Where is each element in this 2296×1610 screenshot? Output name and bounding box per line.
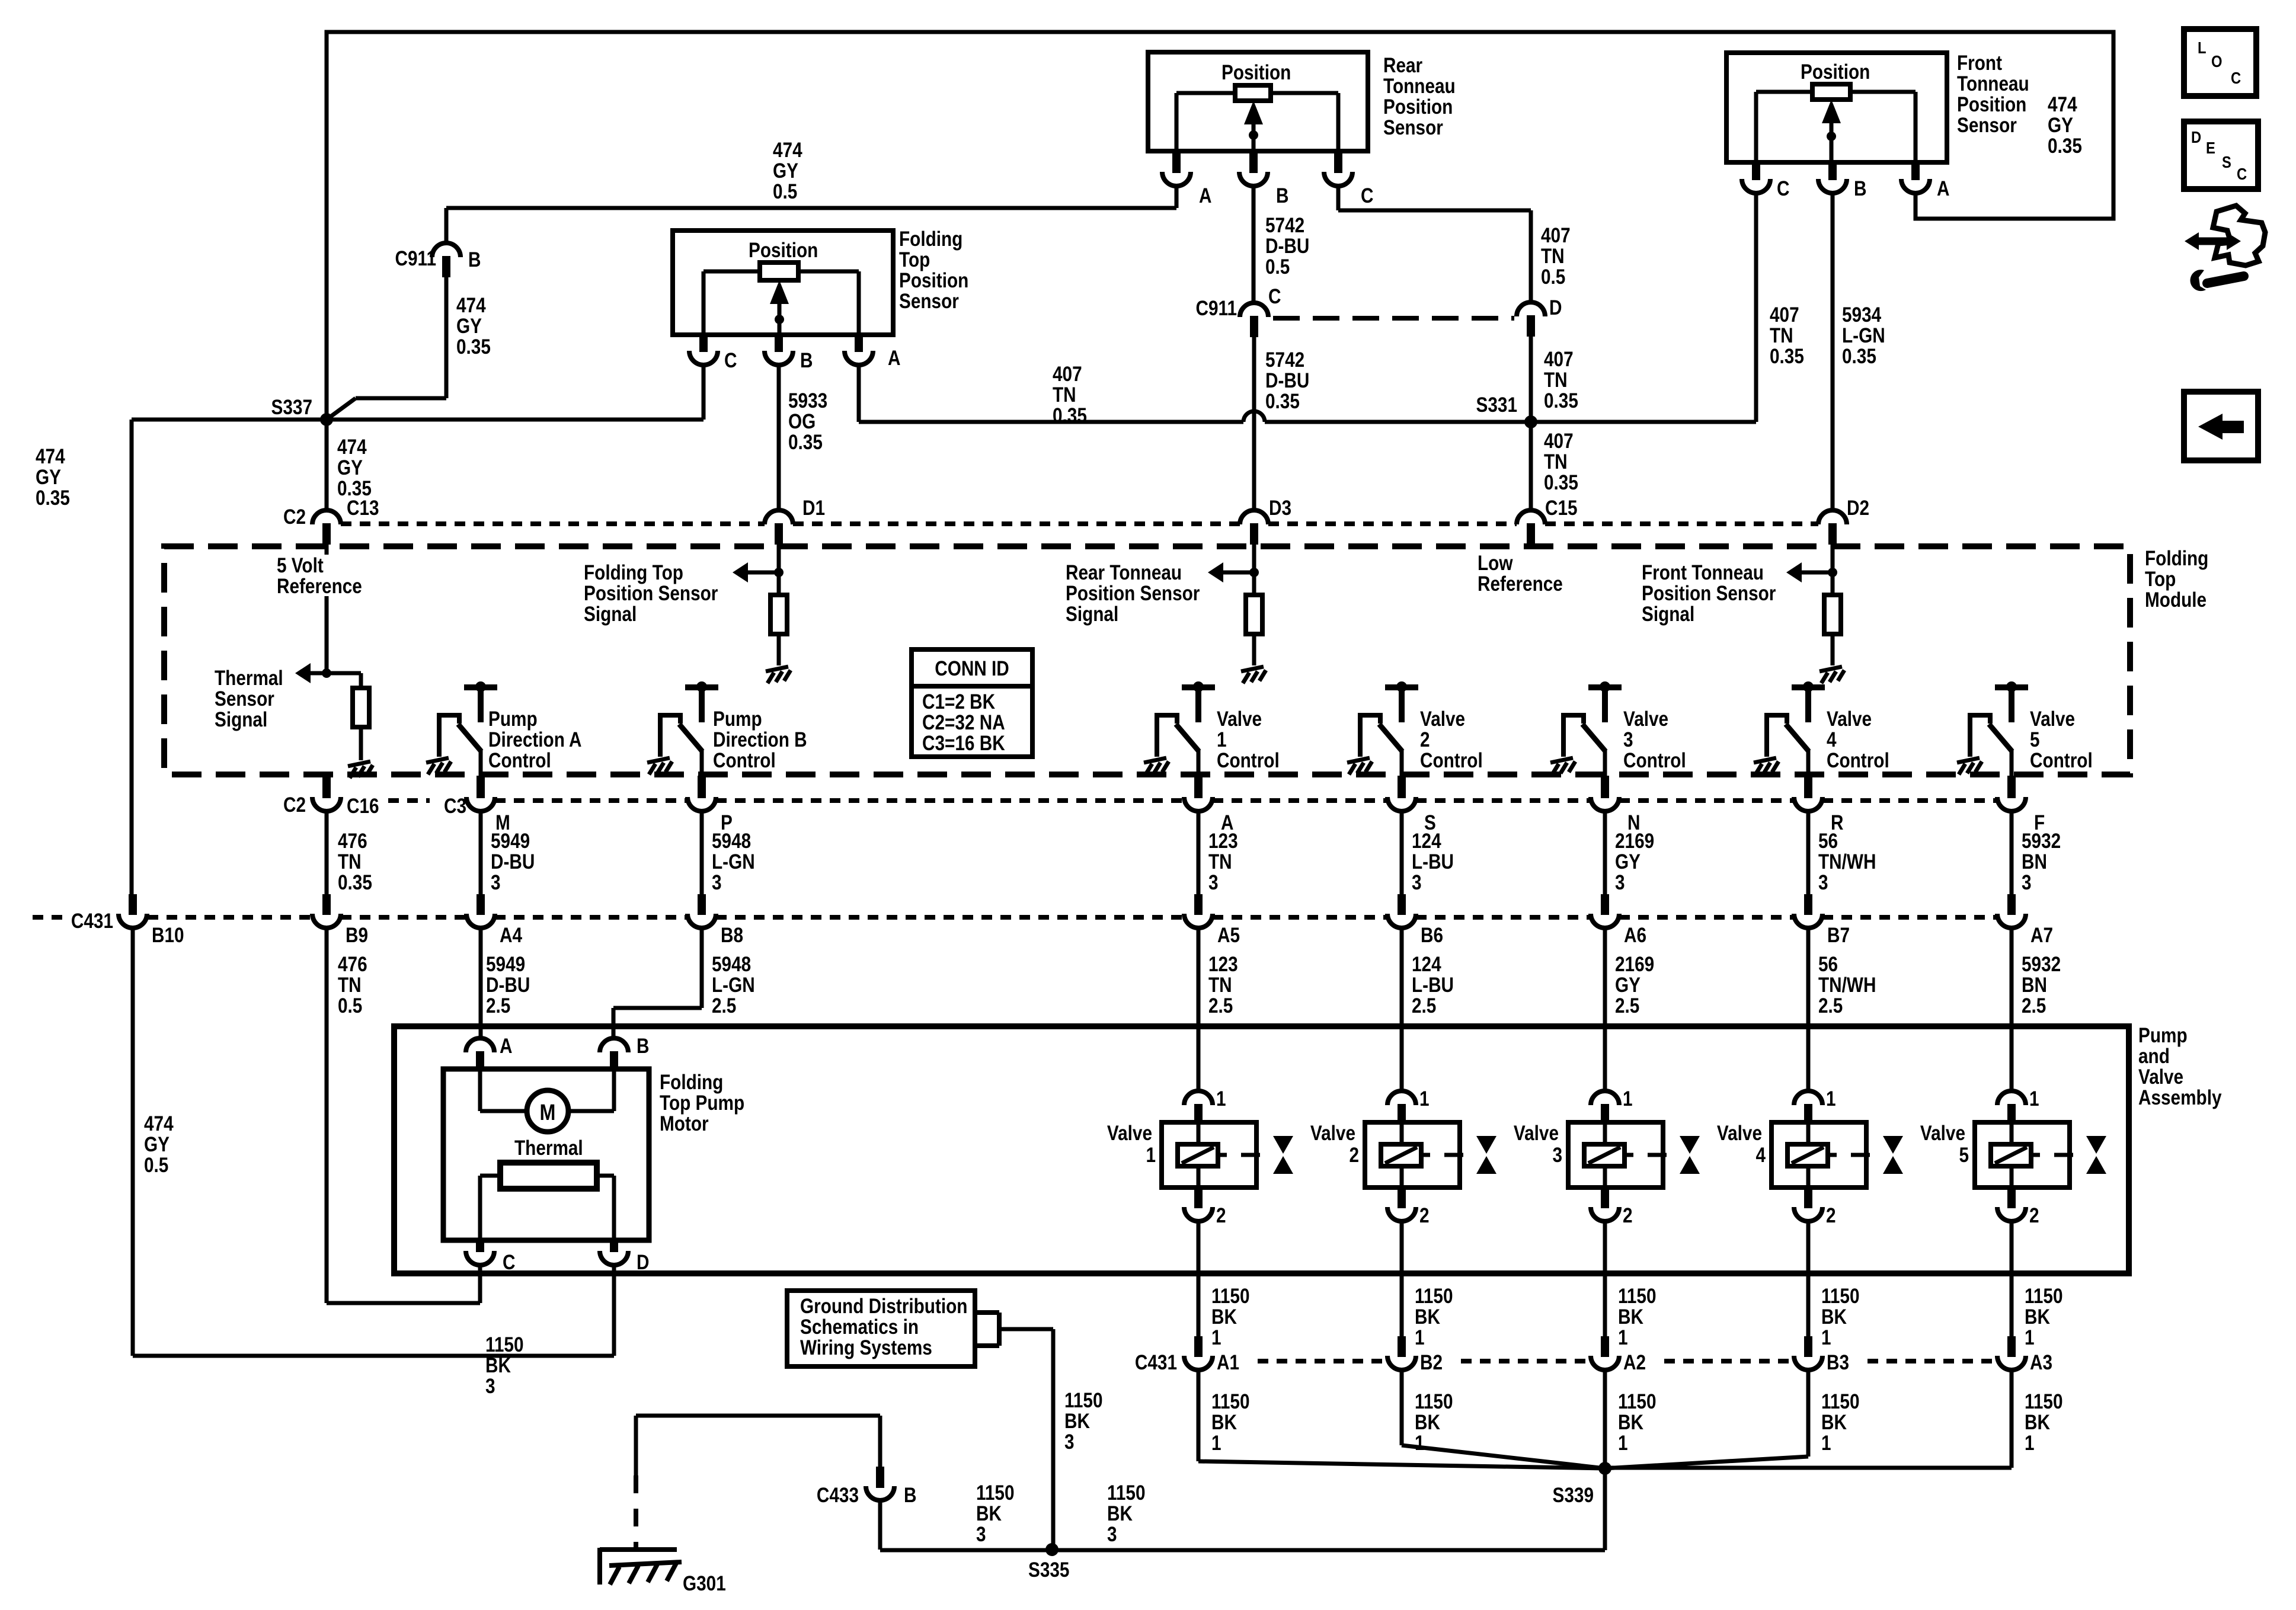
- svg-text:1: 1: [1419, 1087, 1430, 1110]
- svg-text:5948: 5948: [712, 830, 751, 853]
- svg-text:0.5: 0.5: [773, 180, 797, 203]
- wire 1150 BK 1 valve 1 to C431: [1197, 1221, 1201, 1336]
- junction S337: [320, 413, 333, 426]
- connector C431 A1: [1184, 1356, 1213, 1370]
- svg-text:D-BU: D-BU: [1265, 235, 1309, 258]
- DESC box icon: [2184, 121, 2258, 189]
- svg-text:1: 1: [1216, 1087, 1226, 1110]
- pin B rear sensor: [1249, 151, 1258, 172]
- svg-text:0.35: 0.35: [2048, 135, 2082, 158]
- svg-text:B7: B7: [1827, 924, 1850, 947]
- svg-text:Control: Control: [488, 749, 551, 772]
- potentiometer in front sensor: [1812, 84, 1850, 100]
- svg-text:407: 407: [1541, 224, 1571, 247]
- folding top module dashed box: [164, 546, 2130, 774]
- svg-text:2.5: 2.5: [1208, 994, 1233, 1017]
- pin C rear sensor: [1334, 151, 1342, 172]
- dashed connector line C911 C to D: [1273, 316, 1514, 321]
- svg-text:Top: Top: [899, 248, 930, 271]
- wire valve 5 feed 3.0: [2010, 811, 2014, 896]
- svg-text:Position Sensor: Position Sensor: [584, 582, 718, 605]
- svg-text:2: 2: [1216, 1204, 1226, 1227]
- svg-text:1150: 1150: [1415, 1390, 1453, 1413]
- connector C431 B9: [312, 914, 341, 928]
- dashed wire to G301: [634, 1475, 638, 1548]
- svg-text:S: S: [2222, 152, 2231, 171]
- wire 407 TN 0.5 rear pin C to connector D: [1336, 186, 1341, 210]
- wire valve 3 feed 3.0: [1603, 811, 1607, 896]
- ground distribution schematics box: [787, 1291, 975, 1366]
- svg-text:M: M: [540, 1100, 556, 1125]
- svg-text:1150: 1150: [1821, 1285, 1860, 1308]
- switch valve 5 control: [1970, 687, 2028, 776]
- connector R: [1794, 797, 1822, 811]
- svg-text:5933: 5933: [788, 389, 827, 412]
- ground for pump direction A control: [426, 758, 451, 774]
- wrench icon: [2207, 276, 2244, 283]
- connector C431 B6: [1387, 914, 1416, 928]
- rear tonneau position sensor box: [1148, 52, 1368, 151]
- thermal sensor resistor: [359, 673, 363, 688]
- svg-text:0.35: 0.35: [1544, 389, 1578, 412]
- 5 volt reference wire: [325, 524, 329, 673]
- motor M circle: [478, 1069, 482, 1111]
- svg-text:1150: 1150: [1415, 1285, 1453, 1308]
- ground for pump direction B control: [647, 758, 672, 774]
- junction S331: [1524, 415, 1537, 428]
- dashed connector row C16-F: [388, 798, 430, 803]
- valve 5 solenoid box: [1975, 1122, 2070, 1188]
- svg-text:D: D: [637, 1251, 649, 1274]
- svg-text:A: A: [888, 347, 900, 370]
- svg-text:5949: 5949: [491, 830, 530, 853]
- valve 3 pin 2: [1601, 1188, 1609, 1208]
- svg-text:L-BU: L-BU: [1412, 974, 1454, 997]
- svg-text:Valve: Valve: [1310, 1122, 1355, 1145]
- svg-text:0.35: 0.35: [788, 431, 823, 454]
- svg-text:1: 1: [1821, 1432, 1831, 1455]
- svg-text:0.5: 0.5: [144, 1154, 168, 1177]
- svg-text:5: 5: [1959, 1144, 1969, 1167]
- svg-text:S331: S331: [1476, 393, 1517, 417]
- svg-text:5932: 5932: [2022, 830, 2061, 853]
- svg-text:B: B: [904, 1484, 916, 1507]
- motor pin D: [610, 1240, 618, 1252]
- svg-text:5948: 5948: [712, 953, 751, 976]
- svg-text:3: 3: [1208, 871, 1219, 894]
- wire B2 to S339: [1400, 1370, 1404, 1445]
- svg-text:C: C: [503, 1251, 515, 1274]
- folding top pump motor box: [443, 1069, 649, 1240]
- svg-text:2169: 2169: [1615, 953, 1654, 976]
- wiper arrow rear sensor: [1244, 101, 1263, 124]
- switch pump direction B control: [660, 687, 718, 776]
- svg-text:Valve: Valve: [1514, 1122, 1559, 1145]
- connector C433 pin B: [878, 1416, 882, 1467]
- svg-text:Control: Control: [713, 749, 776, 772]
- svg-text:Valve: Valve: [1717, 1122, 1762, 1145]
- valve 1 coil: [1178, 1144, 1218, 1166]
- svg-text:GY: GY: [1615, 850, 1641, 873]
- svg-text:Wiring Systems: Wiring Systems: [800, 1336, 932, 1359]
- svg-text:Control: Control: [1623, 749, 1686, 772]
- svg-text:Thermal: Thermal: [215, 667, 283, 690]
- svg-text:1150: 1150: [1064, 1389, 1103, 1412]
- svg-text:BK: BK: [1211, 1411, 1237, 1434]
- svg-text:Direction B: Direction B: [713, 728, 807, 751]
- svg-text:1: 1: [1826, 1087, 1836, 1110]
- connector C431 A7: [1997, 914, 2026, 928]
- svg-text:0.35: 0.35: [36, 486, 70, 510]
- wire 474 GY 0.5 B10 to motor pin D: [131, 928, 135, 1356]
- switch valve 1 control: [1157, 687, 1215, 776]
- potentiometer in folding top sensor: [760, 263, 798, 280]
- svg-text:1: 1: [1217, 728, 1227, 751]
- svg-text:Valve: Valve: [1623, 708, 1668, 731]
- svg-text:A6: A6: [1624, 924, 1646, 947]
- svg-text:and: and: [2138, 1045, 2170, 1068]
- svg-text:B9: B9: [346, 924, 368, 947]
- svg-text:1150: 1150: [1618, 1285, 1657, 1308]
- motor pin C: [476, 1240, 484, 1252]
- svg-text:Valve: Valve: [1217, 708, 1262, 731]
- valve 2 solenoid box: [1365, 1122, 1460, 1188]
- svg-text:BK: BK: [1821, 1305, 1847, 1329]
- svg-text:Control: Control: [1420, 749, 1483, 772]
- connector C431 B10: [119, 914, 147, 928]
- connector C431 B7: [1794, 914, 1822, 928]
- svg-text:5: 5: [2030, 728, 2040, 751]
- valve 3 solenoid box: [1568, 1122, 1663, 1188]
- svg-text:0.35: 0.35: [456, 335, 491, 359]
- valve 2 coil: [1381, 1144, 1421, 1166]
- pin C front sensor: [1752, 162, 1760, 180]
- svg-text:C15: C15: [1545, 497, 1578, 520]
- svg-text:Valve: Valve: [1107, 1122, 1152, 1145]
- wire to valve 4 pin 1: [1806, 928, 1811, 1091]
- valve 4 pin 1: [1794, 1091, 1822, 1105]
- connector C431 A3: [1997, 1356, 2026, 1370]
- svg-text:1: 1: [1821, 1326, 1831, 1349]
- svg-text:D: D: [1549, 296, 1562, 319]
- wire 1150 BK 1 valve 5 to C431: [2010, 1221, 2014, 1336]
- svg-text:Position: Position: [1957, 93, 2026, 116]
- svg-text:S335: S335: [1028, 1558, 1069, 1582]
- svg-text:TN: TN: [1208, 850, 1232, 873]
- svg-text:Reference: Reference: [277, 575, 362, 598]
- wire 5948 L-GN 2.5 B8 to motor pin B: [700, 928, 704, 1008]
- svg-text:B3: B3: [1827, 1351, 1849, 1374]
- connector A: [1184, 797, 1213, 811]
- wire 1150 BK 1 valve 4 to C431: [1806, 1221, 1811, 1336]
- motor pin B: [600, 1038, 628, 1052]
- svg-text:1150: 1150: [1618, 1390, 1657, 1413]
- svg-text:D2: D2: [1847, 497, 1869, 520]
- svg-text:L-BU: L-BU: [1412, 850, 1454, 873]
- connector C431 A2: [1591, 1356, 1619, 1370]
- valve 2 hydraulic symbol: [1476, 1136, 1496, 1154]
- wire 5949 D-BU 2.5 A4 to motor pin A: [479, 928, 483, 1038]
- wire 407 TN 0.35 S331 down to C15: [1529, 422, 1533, 510]
- svg-text:1150: 1150: [1107, 1481, 1146, 1505]
- valve 1 pin 2: [1194, 1188, 1203, 1208]
- svg-text:D-BU: D-BU: [491, 850, 535, 873]
- connector C15: [1517, 510, 1545, 524]
- svg-text:A7: A7: [2030, 924, 2053, 947]
- svg-text:BK: BK: [1618, 1411, 1643, 1434]
- svg-text:1: 1: [1623, 1087, 1633, 1110]
- svg-text:GY: GY: [1615, 974, 1641, 997]
- svg-text:B6: B6: [1421, 924, 1443, 947]
- svg-text:TN/WH: TN/WH: [1818, 850, 1876, 873]
- svg-text:2169: 2169: [1615, 830, 1654, 853]
- svg-text:L-GN: L-GN: [1842, 324, 1885, 347]
- wire to valve 1 pin 1: [1197, 928, 1201, 1091]
- pin A front sensor: [1911, 162, 1920, 180]
- wire to valve 5 pin 1: [2010, 928, 2014, 1091]
- wire 476 TN 0.35: [325, 811, 329, 896]
- svg-text:BN: BN: [2022, 850, 2047, 873]
- wire B3 to S339: [1806, 1370, 1811, 1457]
- svg-text:1: 1: [2029, 1087, 2039, 1110]
- valve 4 hydraulic symbol: [1883, 1136, 1903, 1154]
- ground Folding Top: [766, 667, 791, 683]
- svg-text:1150: 1150: [1821, 1390, 1860, 1413]
- svg-text:2: 2: [1826, 1204, 1836, 1227]
- svg-text:GY: GY: [144, 1133, 170, 1156]
- svg-text:3: 3: [976, 1523, 986, 1546]
- svg-text:BK: BK: [1415, 1411, 1440, 1434]
- svg-text:A: A: [1199, 184, 1211, 207]
- svg-text:TN: TN: [1208, 974, 1232, 997]
- schematic navigation icon with wrench: [2213, 206, 2265, 265]
- svg-text:C3: C3: [444, 795, 466, 818]
- svg-text:B2: B2: [1420, 1351, 1443, 1374]
- connector S: [1387, 797, 1416, 811]
- valve 4 pin 2: [1804, 1188, 1812, 1208]
- switch valve 3 control: [1563, 687, 1622, 776]
- potentiometer in rear sensor: [1235, 85, 1271, 101]
- svg-text:Tonneau: Tonneau: [1957, 72, 2029, 95]
- wire 5934 L-GN 0.35 front pin B down to D2: [1831, 193, 1835, 510]
- svg-text:407: 407: [1544, 430, 1574, 453]
- svg-text:3: 3: [485, 1375, 495, 1398]
- svg-text:GY: GY: [456, 315, 482, 338]
- dashed connector row C431 B10-A7: [33, 915, 62, 920]
- svg-text:B: B: [637, 1035, 649, 1058]
- svg-text:Top: Top: [2145, 568, 2176, 591]
- svg-text:Schematics in: Schematics in: [800, 1315, 919, 1339]
- svg-text:Folding Top: Folding Top: [584, 561, 683, 584]
- svg-text:TN: TN: [1544, 450, 1568, 473]
- wire ground distribution to S335: [999, 1327, 1053, 1331]
- svg-text:Position: Position: [1801, 60, 1870, 84]
- svg-text:B: B: [1276, 184, 1288, 207]
- valve 5 pin 1: [1997, 1091, 2026, 1105]
- wire to valve 3 pin 1: [1603, 928, 1607, 1091]
- pin B front sensor: [1828, 162, 1837, 180]
- wire 5933 OG 0.35 folding pin B down to D1: [777, 365, 781, 510]
- svg-text:5742: 5742: [1265, 348, 1304, 372]
- svg-text:5742: 5742: [1265, 214, 1304, 237]
- svg-text:124: 124: [1412, 830, 1441, 853]
- svg-text:2.5: 2.5: [712, 994, 736, 1017]
- svg-text:C: C: [724, 349, 737, 372]
- svg-text:3: 3: [1412, 871, 1422, 894]
- valve 2 pin 1: [1387, 1091, 1416, 1105]
- connector F: [1997, 797, 2026, 811]
- svg-text:C: C: [2231, 68, 2241, 87]
- svg-text:Sensor: Sensor: [1957, 114, 2017, 137]
- valve 3 coil: [1584, 1144, 1625, 1166]
- svg-text:2.5: 2.5: [2022, 994, 2046, 1017]
- svg-text:B: B: [800, 349, 813, 372]
- connector D3: [1240, 510, 1268, 524]
- svg-text:1150: 1150: [485, 1333, 524, 1356]
- ground G301: [600, 1548, 682, 1585]
- svg-text:474: 474: [2048, 93, 2077, 116]
- svg-text:474: 474: [456, 294, 486, 317]
- svg-text:0.35: 0.35: [338, 871, 372, 894]
- svg-text:2.5: 2.5: [1412, 994, 1436, 1017]
- wire 407 TN 0.35 folding pin A to S331: [857, 365, 861, 422]
- svg-text:Valve: Valve: [2138, 1065, 2183, 1089]
- wire 474 GY 0.35 below C911 B: [445, 277, 449, 398]
- svg-text:Signal: Signal: [584, 603, 637, 626]
- wire 407 TN 0.35 S331 right to front pin C: [1531, 420, 1756, 424]
- svg-text:3: 3: [1064, 1430, 1075, 1454]
- svg-text:L-GN: L-GN: [712, 850, 755, 873]
- svg-text:0.5: 0.5: [338, 994, 362, 1017]
- svg-text:1: 1: [1415, 1326, 1425, 1349]
- svg-text:2.5: 2.5: [1818, 994, 1843, 1017]
- svg-text:Control: Control: [2030, 749, 2093, 772]
- svg-text:Module: Module: [2145, 588, 2207, 612]
- ground Front Tonneau: [1819, 667, 1844, 683]
- svg-text:C: C: [1268, 285, 1281, 308]
- wire valve 2 feed 3.0: [1400, 811, 1404, 896]
- valve 1 pin 1: [1184, 1091, 1213, 1105]
- svg-text:Pump: Pump: [488, 708, 538, 731]
- svg-text:D1: D1: [802, 497, 825, 520]
- svg-text:C3=16 BK: C3=16 BK: [922, 732, 1005, 755]
- svg-text:BK: BK: [1618, 1305, 1643, 1329]
- wire 1150 BK 3 C433 to G301: [636, 1414, 880, 1418]
- svg-text:GY: GY: [36, 466, 61, 489]
- svg-text:TN: TN: [1770, 324, 1793, 347]
- svg-text:A3: A3: [2030, 1351, 2052, 1374]
- svg-text:CONN ID: CONN ID: [935, 657, 1009, 680]
- svg-text:Reference: Reference: [1478, 572, 1563, 596]
- svg-text:D3: D3: [1269, 497, 1291, 520]
- junction S335: [1045, 1543, 1059, 1556]
- svg-text:5 Volt: 5 Volt: [277, 554, 324, 577]
- svg-text:Direction A: Direction A: [488, 728, 582, 751]
- svg-text:0.35: 0.35: [1265, 390, 1300, 413]
- svg-text:0.5: 0.5: [1541, 265, 1565, 289]
- back arrow box icon: [2184, 392, 2258, 460]
- valve 4 coil: [1787, 1144, 1828, 1166]
- ground for valve 3 control: [1550, 758, 1575, 774]
- thermal sensor signal arrow and node: [322, 668, 331, 678]
- switch valve 2 control: [1360, 687, 1418, 776]
- wire 5948 L-GN 3: [700, 811, 704, 896]
- svg-text:S337: S337: [271, 396, 312, 419]
- svg-text:123: 123: [1208, 953, 1238, 976]
- wire 5742 D-BU 0.35 C911 C down to D3: [1252, 337, 1256, 510]
- svg-text:407: 407: [1053, 363, 1082, 386]
- valve 1 hydraulic symbol: [1273, 1136, 1293, 1154]
- svg-text:474: 474: [36, 445, 65, 468]
- junction S339: [1598, 1462, 1611, 1475]
- svg-text:C13: C13: [347, 497, 379, 520]
- wire C433 to S335 line: [878, 1500, 882, 1550]
- svg-text:0.35: 0.35: [1544, 471, 1578, 494]
- svg-text:TN/WH: TN/WH: [1818, 974, 1876, 997]
- svg-text:Front: Front: [1957, 52, 2002, 75]
- sensor signal wire Folding Top: [777, 524, 781, 595]
- connector C431 A4: [466, 914, 495, 928]
- svg-text:2: 2: [2029, 1204, 2039, 1227]
- svg-text:Folding: Folding: [660, 1071, 723, 1094]
- svg-text:Signal: Signal: [215, 708, 267, 731]
- wire A1 to S339: [1197, 1370, 1201, 1461]
- svg-text:Valve: Valve: [1420, 708, 1465, 731]
- svg-text:123: 123: [1208, 830, 1238, 853]
- svg-text:C2: C2: [283, 505, 306, 529]
- valve 5 coil: [1991, 1144, 2031, 1166]
- ground for valve 5 control: [1957, 758, 1982, 774]
- svg-text:1150: 1150: [2025, 1285, 2063, 1308]
- svg-text:1150: 1150: [1211, 1390, 1250, 1413]
- svg-text:Position: Position: [749, 239, 818, 262]
- svg-text:TN: TN: [338, 974, 362, 997]
- svg-text:Control: Control: [1217, 749, 1280, 772]
- svg-text:Motor: Motor: [660, 1112, 709, 1135]
- connector D1: [765, 510, 793, 524]
- svg-text:C1=2 BK: C1=2 BK: [922, 690, 996, 713]
- connector C911 pin B: [432, 243, 461, 257]
- connector P: [687, 797, 716, 811]
- svg-text:C431: C431: [71, 910, 113, 933]
- svg-text:D-BU: D-BU: [486, 974, 530, 997]
- svg-text:0.35: 0.35: [1842, 345, 1876, 368]
- wire 476 TN 0.5 B9 to motor pin C: [325, 928, 329, 1303]
- connector C431 B3: [1794, 1356, 1822, 1370]
- pump and valve assembly box: [394, 1026, 2129, 1273]
- connector C431 A6: [1591, 914, 1619, 928]
- svg-text:Rear: Rear: [1383, 54, 1422, 77]
- pin A rear sensor: [1172, 151, 1181, 172]
- svg-text:0.35: 0.35: [1053, 404, 1087, 427]
- connector C2 C16: [312, 797, 341, 811]
- svg-text:Valve: Valve: [1827, 708, 1872, 731]
- svg-text:1: 1: [1211, 1326, 1221, 1349]
- svg-text:BK: BK: [2025, 1411, 2050, 1434]
- svg-text:Folding: Folding: [899, 228, 962, 251]
- svg-text:Pump: Pump: [713, 708, 762, 731]
- svg-text:474: 474: [773, 139, 802, 162]
- svg-text:A5: A5: [1217, 924, 1240, 947]
- svg-text:3: 3: [491, 871, 501, 894]
- connector C2 C13: [312, 510, 341, 524]
- svg-text:3: 3: [1615, 871, 1625, 894]
- connector C431 A5: [1184, 914, 1213, 928]
- svg-text:Valve: Valve: [2030, 708, 2075, 731]
- ground distribution connector bracket: [975, 1310, 999, 1315]
- svg-text:1: 1: [1146, 1144, 1156, 1167]
- svg-text:BK: BK: [976, 1502, 1002, 1525]
